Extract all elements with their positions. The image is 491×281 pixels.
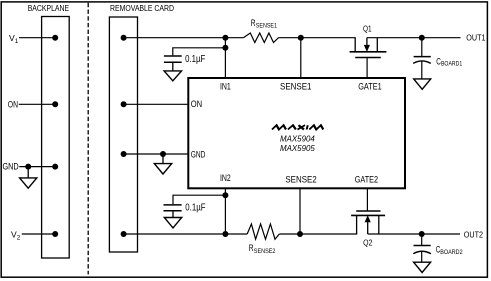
capacitor CBOARD1 xyxy=(413,38,431,79)
junction card ON pin xyxy=(121,101,127,107)
svg-text:SENSE1: SENSE1 xyxy=(256,22,278,29)
svg-text:OUT1: OUT1 xyxy=(466,33,485,42)
wire RSENSE1 to Q1 drain xyxy=(279,37,356,39)
wire RSENSE2 to Q2 drain xyxy=(279,233,357,235)
junction backplane V2 pin xyxy=(52,231,58,237)
resistor RSENSE1 xyxy=(243,33,278,43)
svg-text:0.1µF: 0.1µF xyxy=(185,54,205,65)
svg-text:IN2: IN2 xyxy=(220,173,231,183)
wire ON to backplane xyxy=(19,103,55,105)
wire top rail card to RSENSE1 xyxy=(124,37,244,39)
junction bypass C2 tap xyxy=(222,192,228,198)
label CBOARD1 xyxy=(436,57,462,68)
svg-text:SENSE2: SENSE2 xyxy=(254,248,276,255)
removable card connector xyxy=(109,17,137,252)
wire GND to backplane xyxy=(19,166,55,168)
junction GND ground tap xyxy=(160,151,166,157)
junction bypass C1 tap xyxy=(222,45,228,51)
wire ON card to IC xyxy=(124,103,189,105)
ground card GND xyxy=(154,154,171,174)
wire GATE2 vertical xyxy=(366,188,368,211)
junction backplane GND pin xyxy=(52,164,58,170)
resistor RSENSE2 xyxy=(247,224,279,239)
svg-text:OUT2: OUT2 xyxy=(464,231,483,240)
svg-text:BACKPLANE: BACKPLANE xyxy=(28,4,70,13)
backplane/card separator dashed line xyxy=(87,3,89,275)
svg-text:Q2: Q2 xyxy=(363,239,372,248)
wire Q1 source to OUT1 xyxy=(367,37,461,39)
IC U1 MAX5904/MAX5905 xyxy=(188,78,405,188)
wire GND card to IC xyxy=(124,153,189,155)
junction card GND pin xyxy=(121,151,127,157)
wire Q2 source to OUT2 xyxy=(368,233,460,235)
wire SENSE2 vertical xyxy=(299,188,301,234)
svg-text:GND: GND xyxy=(3,161,19,171)
junction GND tap xyxy=(25,164,31,170)
junction SENSE1 tap xyxy=(298,35,304,41)
svg-text:ON: ON xyxy=(8,100,18,110)
ground below C2 xyxy=(164,211,181,228)
wire V1 to backplane xyxy=(19,37,55,39)
label MAXIM logo xyxy=(272,125,324,129)
junction CBOARD2 tap xyxy=(419,231,425,237)
junction backplane V1 pin xyxy=(52,35,58,41)
svg-text:GATE2: GATE2 xyxy=(355,174,378,184)
svg-text:0.1µF: 0.1µF xyxy=(185,202,205,213)
svg-text:Q1: Q1 xyxy=(363,25,372,34)
junction backplane ON pin xyxy=(52,101,58,107)
wire SENSE1 vertical xyxy=(300,38,302,78)
svg-text:SENSE2: SENSE2 xyxy=(285,174,316,184)
ground below C1 xyxy=(164,62,181,81)
svg-text:2: 2 xyxy=(17,234,21,241)
transistor Q1 xyxy=(350,38,387,58)
svg-text:MAX5905: MAX5905 xyxy=(280,143,315,153)
svg-text:GATE1: GATE1 xyxy=(358,82,382,92)
label RSENSE1 xyxy=(251,18,278,29)
junction card V1 pin xyxy=(121,35,127,41)
wire bottom rail card to RSENSE2 xyxy=(124,233,248,235)
ground below CBOARD2 xyxy=(414,262,431,272)
junction IN1 tap xyxy=(222,35,228,41)
svg-text:IN1: IN1 xyxy=(220,82,231,92)
svg-text:BOARD2: BOARD2 xyxy=(440,249,463,256)
junction CBOARD1 tap xyxy=(419,35,425,41)
capacitor CBOARD2 xyxy=(413,234,431,262)
junction SENSE2 tap xyxy=(297,231,303,237)
junction IN2 tap xyxy=(222,231,228,237)
svg-text:REMOVABLE CARD: REMOVABLE CARD xyxy=(110,4,174,13)
label CBOARD2 xyxy=(436,245,463,256)
svg-text:ON: ON xyxy=(191,99,202,109)
ground backplane xyxy=(20,167,37,189)
svg-text:1: 1 xyxy=(15,38,19,45)
node V2 label xyxy=(11,229,21,241)
node V1 label xyxy=(9,33,19,45)
wire IN2 vertical xyxy=(224,188,226,234)
wire C1 branch xyxy=(173,48,226,56)
capacitor 0.1uF (top) xyxy=(164,56,182,62)
transistor Q2 xyxy=(351,211,385,234)
capacitor 0.1uF (bottom) xyxy=(164,205,182,211)
ground below CBOARD1 xyxy=(414,79,431,89)
backplane connector xyxy=(42,17,70,259)
wire V2 to backplane xyxy=(22,233,55,235)
wire IN1 vertical xyxy=(224,38,226,78)
svg-text:BOARD1: BOARD1 xyxy=(441,61,463,68)
label RSENSE2 xyxy=(249,243,276,255)
wire C2 branch xyxy=(173,195,225,204)
junction card V2 pin xyxy=(121,231,127,237)
svg-text:SENSE1: SENSE1 xyxy=(280,82,312,92)
svg-text:GND: GND xyxy=(191,149,206,159)
wire GATE1 vertical xyxy=(366,58,368,79)
